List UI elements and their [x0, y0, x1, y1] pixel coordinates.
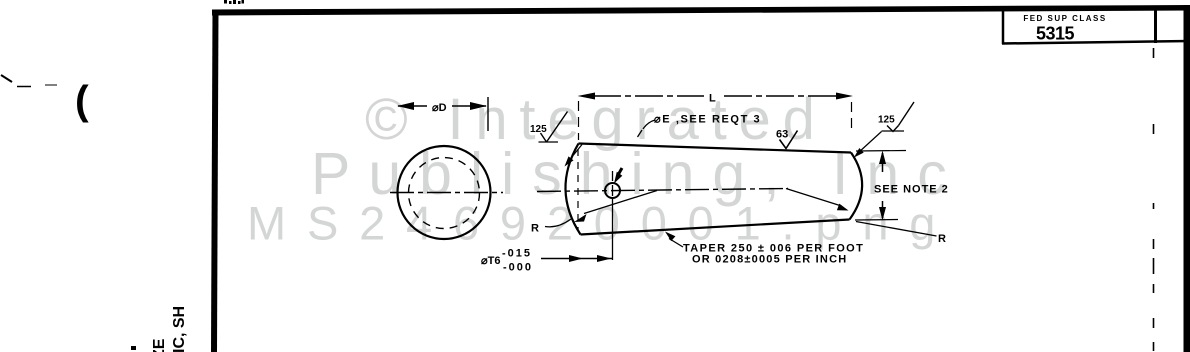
svg-text:ZE: ZE [151, 338, 168, 352]
svg-text:SEE NOTE 2: SEE NOTE 2 [874, 184, 949, 196]
svg-text:⌀E ,SEE REQT 3: ⌀E ,SEE REQT 3 [654, 114, 761, 126]
svg-text:5315: 5315 [1036, 24, 1075, 44]
svg-text:(: ( [75, 77, 89, 123]
svg-text:63: 63 [776, 129, 788, 141]
svg-text:R: R [938, 233, 946, 245]
svg-text:-015: -015 [502, 248, 532, 260]
svg-text:125: 125 [530, 124, 547, 135]
svg-text:R: R [531, 223, 539, 235]
svg-text:OR 0208±0005 PER INCH: OR 0208±0005 PER INCH [692, 254, 847, 266]
svg-text:L: L [709, 93, 716, 105]
svg-text:⌀D: ⌀D [432, 102, 447, 114]
svg-text:IC, SH: IC, SH [171, 306, 188, 352]
svg-text:⌀T6: ⌀T6 [481, 255, 500, 267]
svg-text:FED SUP CLASS: FED SUP CLASS [1023, 14, 1106, 23]
svg-text:-000: -000 [503, 262, 533, 274]
svg-text:125: 125 [878, 115, 895, 126]
